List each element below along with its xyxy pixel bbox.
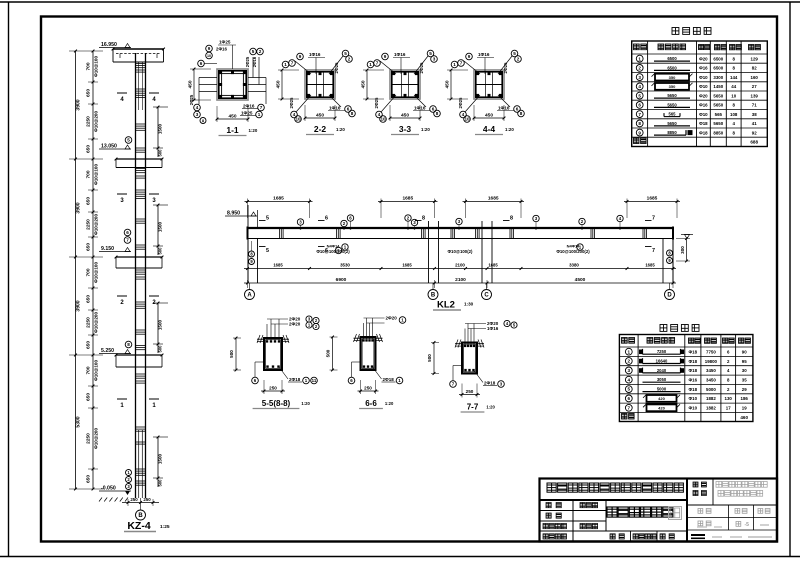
svg-text:144: 144	[730, 75, 738, 80]
svg-text:2Φ16: 2Φ16	[243, 104, 255, 109]
column table total row	[634, 138, 640, 144]
beam section 6-6 left leader	[352, 361, 361, 363]
axis bubble A	[249, 283, 251, 289]
section 1-1 left dimension 450	[193, 69, 195, 100]
svg-text:1Φ16: 1Φ16	[498, 106, 510, 111]
beam section 7-7 bottom bars	[464, 369, 466, 371]
svg-text:5: 5	[266, 248, 269, 254]
svg-text:2Φ25: 2Φ25	[289, 97, 294, 108]
svg-text:44: 44	[731, 84, 736, 89]
svg-text:8: 8	[127, 342, 130, 347]
svg-text:250: 250	[466, 389, 474, 394]
section 1-1 callout circles bottom-left	[194, 104, 201, 111]
column at axis D below beam	[662, 239, 664, 284]
rebar callout circles 1 2 3 at column base	[126, 470, 132, 476]
rebar callout circles 6 7 on column	[124, 229, 131, 236]
section leader bottom-left	[465, 95, 480, 112]
section leader bottom-right	[414, 95, 426, 107]
bottom row cells zhuanye / tumu gongcheng / shenhe	[610, 534, 615, 539]
section 1-1 stirrup	[219, 71, 246, 98]
svg-text:2Φ20: 2Φ20	[289, 322, 301, 327]
svg-text:B: B	[431, 293, 436, 299]
svg-text:6-6: 6-6	[365, 399, 377, 408]
column table row 8	[636, 120, 643, 127]
svg-text:1:30: 1:30	[464, 302, 474, 307]
svg-text:2100: 2100	[455, 263, 465, 268]
column table row 7	[636, 111, 643, 118]
svg-text:460: 460	[740, 415, 748, 420]
row label zhuanye mingcheng	[543, 534, 548, 539]
svg-text:1500: 1500	[158, 319, 163, 330]
svg-text:2Φ25: 2Φ25	[458, 97, 463, 108]
section 2-2 stirrup	[307, 72, 333, 97]
beam section 6-6 outline	[361, 337, 376, 370]
svg-text:Φ10@100: Φ10@100	[94, 360, 99, 381]
rebar callout circles above beam	[297, 219, 303, 225]
column table row 3	[636, 74, 643, 81]
svg-text:6500: 6500	[667, 65, 677, 70]
svg-text:1685: 1685	[273, 196, 284, 202]
svg-text:6: 6	[628, 396, 631, 401]
beam table row 3	[625, 367, 632, 374]
svg-text:3-3: 3-3	[399, 124, 412, 134]
drawing title liang zhu pei jin detail	[607, 507, 617, 517]
beam KL2 top flange line	[247, 227, 673, 229]
rebar callout circles below beam	[342, 244, 348, 250]
section leader top-right	[498, 56, 512, 74]
svg-text:7: 7	[126, 238, 129, 243]
section 3-3 bottom dimension 450	[390, 117, 420, 119]
section cut marks 3-3 on column	[117, 193, 127, 195]
svg-text:-5: -5	[745, 522, 750, 528]
svg-text:5.250: 5.250	[101, 348, 114, 354]
svg-text:9: 9	[299, 54, 302, 59]
beam rebar table title	[660, 325, 667, 332]
svg-text:4: 4	[628, 377, 631, 382]
svg-text:700: 700	[86, 170, 92, 178]
svg-text:420: 420	[658, 396, 665, 401]
svg-text:Φ16: Φ16	[689, 378, 698, 383]
svg-text:2250: 2250	[86, 433, 92, 444]
column stirrup bands	[136, 63, 146, 65]
svg-text:2Φ25: 2Φ25	[189, 94, 194, 105]
svg-text:5-5(8-8): 5-5(8-8)	[262, 399, 291, 408]
section leader bottom-right	[498, 95, 510, 107]
section 1-1 corner bars	[219, 71, 222, 74]
column rebar table grid	[632, 41, 768, 147]
svg-text:1-1: 1-1	[226, 125, 239, 135]
drawing title last char boxed	[669, 507, 682, 520]
section 2-2 concrete outline	[305, 70, 335, 99]
svg-text:5650: 5650	[667, 93, 677, 98]
svg-text:A: A	[247, 293, 252, 299]
svg-text:3450: 3450	[706, 378, 716, 383]
intermediate dimension line of beam	[244, 268, 676, 270]
svg-text:1450: 1450	[713, 84, 723, 89]
svg-text:6: 6	[200, 61, 203, 66]
beam table row 6	[625, 395, 632, 402]
svg-text:5650: 5650	[667, 102, 677, 107]
beam section 5-5(8-8) left dimension 500	[235, 338, 237, 370]
svg-text:9: 9	[468, 54, 471, 59]
title block right grid	[687, 504, 777, 506]
svg-text:9: 9	[638, 130, 641, 135]
svg-text:3300: 3300	[713, 75, 723, 80]
svg-text:650: 650	[86, 341, 92, 349]
svg-text:16.950: 16.950	[101, 42, 117, 48]
span dimension line of beam	[244, 282, 676, 284]
section 1-1 concrete outline	[217, 69, 248, 100]
svg-text:1500: 1500	[158, 123, 163, 134]
title block main divider lines	[540, 499, 688, 501]
svg-text:500: 500	[158, 149, 163, 157]
svg-text:500: 500	[158, 247, 163, 255]
beam rebar table header	[622, 338, 628, 344]
svg-text:500: 500	[326, 349, 331, 357]
svg-text:B: B	[138, 513, 143, 519]
section leader bottom-left	[296, 95, 311, 112]
beam section 6-6 bottom dimension 250	[358, 390, 379, 392]
svg-text:8: 8	[351, 111, 354, 116]
svg-text:1:20: 1:20	[301, 401, 310, 406]
svg-text:7: 7	[652, 248, 655, 254]
svg-text:7-7: 7-7	[467, 403, 479, 412]
axis bubble D	[669, 283, 671, 289]
svg-text:1Φ16: 1Φ16	[487, 326, 499, 331]
svg-text:8: 8	[436, 111, 439, 116]
svg-text:8850: 8850	[713, 130, 723, 135]
svg-text:Φ10@100(2): Φ10@100(2)	[448, 249, 473, 254]
svg-text:2Φ18: 2Φ18	[484, 381, 496, 386]
svg-text:3: 3	[433, 57, 436, 62]
column KZ-4 inner rebar	[138, 430, 140, 498]
section cut 7-7 marks on beam	[645, 220, 652, 222]
row label xiao dui	[546, 513, 551, 518]
svg-text:1685: 1685	[647, 196, 658, 202]
svg-text:1: 1	[638, 56, 641, 61]
section leader top-left	[295, 61, 311, 74]
section 4-4 corner bars	[476, 72, 479, 75]
beam section 7-7 top bars	[464, 345, 466, 347]
beam table total row	[622, 414, 628, 420]
beam section 6-6 left dimension 500	[332, 337, 334, 370]
svg-text:1685: 1685	[273, 263, 283, 268]
svg-text:7: 7	[376, 61, 379, 66]
svg-text:Φ18: Φ18	[689, 350, 698, 355]
beam table row 5	[625, 386, 632, 393]
svg-text:1Φ16: 1Φ16	[394, 52, 406, 57]
svg-text:71: 71	[752, 103, 757, 108]
svg-text:450: 450	[485, 113, 493, 119]
section leader bottom-left	[381, 95, 396, 112]
beam section 5-5(8-8) bottom bars	[266, 365, 268, 367]
svg-text:KL2: KL2	[437, 300, 455, 311]
column table row 2	[636, 65, 643, 72]
svg-text:6900: 6900	[336, 277, 347, 283]
svg-text:108: 108	[730, 112, 738, 117]
svg-text:2250: 2250	[86, 317, 92, 328]
svg-text:3900: 3900	[76, 99, 82, 110]
svg-text:500: 500	[158, 479, 163, 487]
rebar callout circle 5 on column	[125, 137, 132, 144]
section 4-4 stirrup	[476, 72, 502, 97]
svg-text:6500: 6500	[713, 66, 723, 71]
svg-text:1: 1	[369, 62, 372, 67]
svg-text:4: 4	[196, 105, 199, 110]
svg-text:1500: 1500	[158, 453, 163, 464]
project name label	[712, 479, 714, 506]
svg-text:Φ16: Φ16	[699, 66, 708, 71]
svg-text:2Φ16: 2Φ16	[252, 56, 257, 67]
svg-text:13.050: 13.050	[101, 144, 117, 150]
section 1-1 callout circles right	[250, 48, 257, 55]
svg-text:250: 250	[130, 497, 138, 502]
svg-text:565: 565	[715, 112, 723, 117]
svg-text:Φ20: Φ20	[699, 93, 708, 98]
section leader top-left	[464, 61, 480, 74]
svg-text:650: 650	[86, 475, 92, 483]
beam table row 7	[625, 404, 632, 411]
section 3-3 concrete outline	[390, 70, 420, 99]
svg-text:5650: 5650	[667, 121, 677, 126]
svg-text:650: 650	[86, 295, 92, 303]
svg-text:Φ18: Φ18	[689, 368, 698, 373]
beam section 6-6 top leaders and labels	[363, 323, 365, 339]
svg-text:7: 7	[460, 61, 463, 66]
column rebar table title	[672, 28, 679, 35]
instructor name	[580, 524, 585, 529]
section 2-2 corner bars	[307, 72, 310, 75]
svg-text:1882: 1882	[706, 406, 716, 411]
svg-text:700: 700	[86, 366, 92, 374]
section leader top-right	[414, 56, 428, 74]
svg-text:1685: 1685	[402, 196, 413, 202]
right dimension chain on column	[157, 107, 159, 157]
svg-text:2Φ16: 2Φ16	[216, 47, 227, 52]
svg-text:250: 250	[143, 497, 151, 502]
column base dimensions 250 250	[122, 502, 159, 504]
svg-text:Φ10@200: Φ10@200	[94, 214, 99, 235]
svg-text:6: 6	[638, 103, 641, 108]
beam section 7-7 left dimension 500	[433, 343, 435, 374]
svg-text:250: 250	[269, 386, 277, 391]
column rebar table header	[634, 44, 640, 50]
svg-text:5: 5	[429, 51, 432, 56]
svg-text:Φ18: Φ18	[699, 121, 708, 126]
svg-text:2Φ25: 2Φ25	[334, 62, 339, 73]
svg-text:2250: 2250	[86, 219, 92, 230]
svg-text:82: 82	[752, 66, 757, 71]
svg-text:650: 650	[86, 145, 92, 153]
beam KL2 bottom line	[248, 238, 674, 240]
svg-text:500: 500	[427, 354, 432, 362]
svg-text:350: 350	[669, 75, 676, 80]
svg-text:1685: 1685	[488, 196, 499, 202]
svg-text:1: 1	[258, 112, 261, 117]
left dimension chain - storey heights	[75, 51, 77, 489]
column table row 4	[636, 83, 643, 90]
svg-text:2Φ25: 2Φ25	[419, 62, 424, 73]
beam section 7-7 bottom-right leader	[474, 371, 483, 383]
svg-text:N4Φ14: N4Φ14	[327, 244, 341, 249]
svg-text:139: 139	[751, 93, 759, 98]
designer name	[580, 503, 585, 508]
svg-text:8.950: 8.950	[227, 211, 240, 217]
svg-text:1685: 1685	[645, 263, 655, 268]
svg-text:D: D	[667, 293, 672, 299]
svg-text:2: 2	[638, 66, 641, 71]
svg-text:1Φ16: 1Φ16	[414, 106, 426, 111]
svg-text:500: 500	[158, 345, 163, 353]
beam section 7-7 top leaders and labels	[464, 329, 466, 345]
svg-text:3530: 3530	[340, 263, 350, 268]
svg-text:95: 95	[742, 359, 747, 364]
svg-text:2: 2	[348, 57, 351, 62]
rebar callout circle 8 on column	[125, 341, 132, 348]
svg-text:10: 10	[464, 117, 470, 122]
svg-text:11: 11	[312, 378, 317, 383]
svg-text:8: 8	[422, 216, 425, 222]
svg-text:2Φ20: 2Φ20	[386, 316, 398, 321]
svg-text:565: 565	[669, 112, 677, 117]
svg-text:2Φ25: 2Φ25	[503, 62, 508, 73]
svg-text:Φ10: Φ10	[699, 84, 708, 89]
outer sheet border	[0, 1, 800, 3]
svg-text:688: 688	[750, 140, 758, 145]
svg-text:700: 700	[86, 268, 92, 276]
svg-text:2040: 2040	[657, 368, 667, 373]
top reinforcement cut-off dimensions 1685	[245, 201, 313, 203]
svg-text:Φ10@200: Φ10@200	[94, 111, 99, 132]
svg-text:450: 450	[361, 80, 367, 88]
section 4-4 bottom dimension 450	[474, 117, 504, 119]
svg-text:5000: 5000	[706, 387, 716, 392]
svg-text:2: 2	[259, 49, 262, 54]
svg-text:Φ10@200: Φ10@200	[94, 428, 99, 449]
svg-text:3: 3	[638, 75, 641, 80]
svg-text:8850: 8850	[667, 130, 677, 135]
beam section 5-5(8-8) outline	[264, 338, 282, 370]
svg-text:130: 130	[725, 396, 733, 401]
beam section 5-5(8-8) slab break marks	[257, 338, 264, 340]
svg-text:1:20: 1:20	[385, 401, 394, 406]
column at axis A below beam	[247, 239, 249, 284]
svg-text:Φ10: Φ10	[689, 396, 698, 401]
svg-text:6500: 6500	[667, 56, 677, 61]
svg-text:1Φ25: 1Φ25	[241, 111, 253, 116]
svg-text:Φ10@100/200(2): Φ10@100/200(2)	[556, 249, 590, 254]
svg-text:5: 5	[513, 51, 516, 56]
svg-text:2100: 2100	[455, 277, 466, 283]
svg-text:420: 420	[658, 406, 665, 411]
section cut 6-6 marks on beam	[318, 220, 325, 222]
svg-text:1: 1	[284, 62, 287, 67]
svg-text:3: 3	[628, 368, 631, 373]
axis bubble B	[432, 283, 434, 289]
svg-text:350: 350	[669, 84, 676, 89]
section leader bottom-right	[329, 95, 341, 107]
svg-text:KZ-4: KZ-4	[127, 520, 150, 532]
svg-text:9.150: 9.150	[101, 246, 114, 252]
section leader top-right	[329, 56, 343, 74]
svg-text:38: 38	[752, 112, 757, 117]
svg-text:Φ16: Φ16	[699, 103, 708, 108]
svg-text:6: 6	[126, 230, 129, 235]
svg-text:650: 650	[86, 89, 92, 97]
svg-text:1: 1	[628, 349, 631, 354]
svg-text:129: 129	[751, 56, 759, 61]
roof slab at 16.950	[113, 48, 164, 50]
beam section 7-7 outline	[462, 343, 477, 374]
svg-text:2250: 2250	[86, 116, 92, 127]
svg-text:500: 500	[229, 350, 234, 358]
svg-text:1500: 1500	[158, 221, 163, 232]
column table row 5	[636, 92, 643, 99]
svg-text:3900: 3900	[76, 300, 82, 311]
svg-text:6500: 6500	[713, 56, 723, 61]
svg-text:5000: 5000	[657, 387, 667, 392]
svg-text:4-4: 4-4	[483, 124, 496, 134]
section leader top-left	[380, 61, 396, 74]
svg-text:C: C	[484, 293, 489, 299]
svg-text:1Φ16: 1Φ16	[329, 106, 341, 111]
svg-text:9: 9	[208, 46, 211, 51]
section 4-4 concrete outline	[474, 70, 504, 99]
svg-text:1Φ16: 1Φ16	[478, 52, 490, 57]
section 3-3 left dimension 450	[366, 70, 368, 99]
section cut marks 4-4 on column	[117, 92, 127, 94]
svg-text:5: 5	[344, 51, 347, 56]
svg-text:3450: 3450	[706, 368, 716, 373]
svg-text:5650: 5650	[713, 103, 723, 108]
beam section 5-5(8-8) top bars	[266, 340, 268, 342]
svg-text:1:20: 1:20	[249, 128, 258, 133]
svg-text:Φ10: Φ10	[689, 406, 698, 411]
beam section 6-6 bottom-right leader	[373, 367, 382, 379]
svg-text:2Φ25: 2Φ25	[374, 97, 379, 108]
svg-text:Φ20: Φ20	[699, 56, 708, 61]
svg-text:35: 35	[742, 378, 747, 383]
svg-text:2Φ25: 2Φ25	[245, 56, 250, 67]
row label shen ji	[546, 503, 551, 508]
svg-text:1: 1	[453, 62, 456, 67]
beam table row 2	[625, 358, 632, 365]
left dimension chain - stirrup zones	[92, 51, 94, 489]
hanger bar callouts at beam right end	[667, 250, 673, 256]
beam section 6-6 top bars	[362, 339, 364, 341]
svg-text:650: 650	[86, 197, 92, 205]
beam section 5-5(8-8) bottom dimension 250	[261, 390, 285, 392]
section 1-1 bottom dimension 450	[217, 118, 248, 120]
svg-text:5300: 5300	[76, 416, 82, 427]
beam stirrup tick marks	[279, 229, 281, 239]
section 3-3 corner bars	[392, 72, 395, 75]
svg-text:5: 5	[127, 138, 130, 143]
svg-text:450: 450	[316, 113, 324, 119]
svg-text:2Φ18: 2Φ18	[289, 377, 301, 382]
svg-text:Φ10@100: Φ10@100	[94, 56, 99, 77]
svg-text:3900: 3900	[76, 202, 82, 213]
section 1-1 callout circles top	[206, 45, 213, 52]
svg-text:10: 10	[207, 54, 211, 58]
svg-text:450: 450	[445, 80, 451, 88]
svg-text:6: 6	[325, 216, 328, 222]
svg-text:2Φ18: 2Φ18	[383, 377, 395, 382]
svg-text:17: 17	[726, 406, 731, 411]
svg-text:7250: 7250	[657, 349, 667, 354]
svg-text:1:20: 1:20	[421, 127, 430, 132]
svg-text:92: 92	[752, 130, 757, 135]
